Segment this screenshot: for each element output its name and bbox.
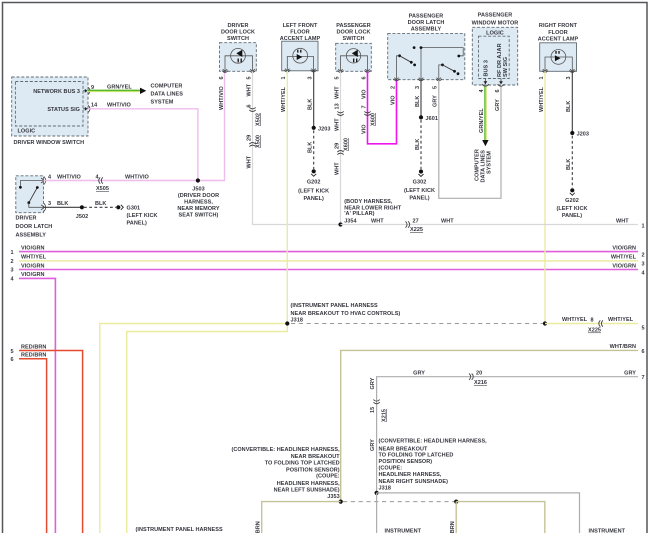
wire BLK dashed J601 to G302 bbox=[415, 120, 421, 169]
node junction at right lamp wire bbox=[543, 321, 547, 325]
wire BLK lamp pin3 to J203 bbox=[566, 71, 572, 133]
svg-text:X505: X505 bbox=[96, 186, 109, 192]
svg-text:PANEL): PANEL) bbox=[409, 196, 429, 202]
svg-text:X225: X225 bbox=[588, 328, 601, 334]
label DRIVER DOOR LATCH ASSEMBLY bbox=[16, 216, 53, 239]
svg-text:2: 2 bbox=[641, 253, 644, 259]
svg-text:VIO: VIO bbox=[361, 89, 367, 99]
svg-text:HARNESS,: HARNESS, bbox=[184, 199, 213, 205]
node COMPUTER DATA LINES SYSTEM bbox=[151, 83, 184, 105]
svg-text:1: 1 bbox=[641, 224, 644, 230]
svg-text:J502: J502 bbox=[76, 214, 88, 220]
ground G202 left (LEFT KICK PANEL) bbox=[298, 169, 329, 202]
connector X602 pin 13 bbox=[334, 103, 343, 115]
svg-text:6: 6 bbox=[10, 357, 13, 363]
svg-text:GRY: GRY bbox=[370, 439, 376, 451]
wire BLK latch pin3 to J502 bbox=[44, 201, 82, 207]
svg-text:WHT: WHT bbox=[246, 83, 252, 96]
svg-text:6: 6 bbox=[641, 349, 644, 355]
svg-text:WHT/YEL: WHT/YEL bbox=[539, 86, 545, 112]
svg-text:RIGHT FRONT: RIGHT FRONT bbox=[539, 23, 578, 29]
svg-text:WHT/YEL: WHT/YEL bbox=[608, 317, 634, 323]
lamp E2 RIGHT FRONT FLOOR ACCENT LAMP bbox=[538, 23, 579, 72]
svg-text:SEAT SWITCH): SEAT SWITCH) bbox=[179, 212, 219, 218]
svg-text:VIO/GRN: VIO/GRN bbox=[612, 263, 636, 269]
svg-text:SYSTEM: SYSTEM bbox=[151, 99, 174, 105]
wire WHT/YEL branch B to J318 hvac breakout bbox=[127, 324, 288, 533]
svg-text:G301: G301 bbox=[127, 205, 141, 211]
svg-text:GRY: GRY bbox=[370, 377, 376, 389]
svg-text:COMPUTER: COMPUTER bbox=[151, 83, 183, 89]
node J318 instrument panel harness breakout bbox=[285, 303, 400, 326]
svg-text:7: 7 bbox=[361, 105, 367, 108]
svg-text:ACCENT LAMP: ACCENT LAMP bbox=[538, 36, 579, 42]
svg-text:WHT/YEL: WHT/YEL bbox=[21, 255, 47, 261]
svg-text:GRY: GRY bbox=[413, 371, 425, 377]
svg-text:WHT: WHT bbox=[334, 162, 340, 175]
wire GRY right edge to J318 headliner bbox=[370, 371, 638, 493]
svg-text:PASSENGER: PASSENGER bbox=[336, 23, 371, 29]
svg-text:(COUPE:: (COUPE: bbox=[316, 474, 340, 480]
svg-text:6: 6 bbox=[495, 89, 501, 92]
svg-text:1: 1 bbox=[281, 76, 287, 79]
svg-text:G302: G302 bbox=[413, 179, 427, 185]
connector X215 pin 15 bbox=[373, 400, 387, 422]
svg-text:6: 6 bbox=[361, 76, 367, 79]
svg-text:VIO/GRN: VIO/GRN bbox=[21, 263, 45, 269]
connector X216 pin 20 bbox=[469, 371, 487, 387]
svg-text:BLK: BLK bbox=[57, 201, 68, 207]
svg-text:BLK: BLK bbox=[95, 201, 106, 207]
node J203 right bbox=[570, 131, 589, 138]
svg-text:WHT/YEL: WHT/YEL bbox=[611, 255, 637, 261]
svg-text:(CONVERTIBLE: HEADLINER HARNES: (CONVERTIBLE: HEADLINER HARNESS, bbox=[379, 439, 488, 445]
svg-text:NEAR MEMORY: NEAR MEMORY bbox=[177, 206, 219, 212]
svg-text:5: 5 bbox=[641, 326, 644, 332]
wire VIO/GRN bus line 1 bbox=[19, 245, 638, 251]
svg-text:BLK: BLK bbox=[566, 101, 572, 112]
svg-text:4: 4 bbox=[10, 277, 14, 283]
svg-text:WHT: WHT bbox=[246, 155, 252, 168]
svg-text:WHT: WHT bbox=[334, 86, 340, 99]
switch S4 PASSENGER DOOR LATCH ASSEMBLY bbox=[388, 14, 465, 81]
svg-text:TO FOLDING TOP LATCHED: TO FOLDING TOP LATCHED bbox=[265, 461, 340, 467]
svg-text:DOOR LATCH: DOOR LATCH bbox=[408, 20, 445, 26]
node junction right of J353 bbox=[454, 500, 458, 504]
node J353 headliner harness left bbox=[231, 447, 342, 504]
svg-text:FLOOR: FLOOR bbox=[290, 30, 310, 36]
svg-text:(LEFT KICK: (LEFT KICK bbox=[127, 213, 158, 219]
svg-text:LOGIC: LOGIC bbox=[18, 129, 36, 135]
svg-text:X225: X225 bbox=[410, 227, 423, 233]
svg-text:WHT: WHT bbox=[616, 219, 629, 225]
svg-text:1: 1 bbox=[539, 76, 545, 79]
svg-text:WINDOW MOTOR: WINDOW MOTOR bbox=[472, 21, 519, 27]
svg-text:PANEL): PANEL) bbox=[562, 213, 582, 219]
svg-text:PASSENGER: PASSENGER bbox=[409, 14, 444, 20]
svg-text:J203: J203 bbox=[577, 132, 589, 138]
svg-text:WHT: WHT bbox=[371, 219, 384, 225]
svg-text:VIO/GRN: VIO/GRN bbox=[21, 245, 45, 251]
node J601 bbox=[419, 115, 438, 122]
node J503 junction bbox=[177, 178, 219, 218]
svg-text:LOGIC: LOGIC bbox=[486, 31, 504, 37]
wire GRN/YEL to computer data lines bbox=[479, 87, 488, 147]
node COMPUTER DATA LINES SYSTEM rotated bbox=[475, 149, 493, 182]
svg-text:X600: X600 bbox=[370, 113, 376, 126]
svg-text:WHT/VIO: WHT/VIO bbox=[57, 174, 82, 180]
svg-text:WHT/VIO: WHT/VIO bbox=[219, 85, 225, 110]
svg-text:ASSEMBLY: ASSEMBLY bbox=[411, 27, 442, 33]
svg-text:DOOR LOCK: DOOR LOCK bbox=[336, 30, 370, 36]
svg-text:SWITCH: SWITCH bbox=[343, 36, 365, 42]
svg-text:3: 3 bbox=[566, 76, 572, 79]
connector X600 pin 7 bbox=[361, 105, 376, 126]
connector X500 pin 29 bbox=[246, 135, 261, 148]
svg-text:2: 2 bbox=[10, 259, 13, 265]
ground G202 right (LEFT KICK PANEL) bbox=[556, 188, 587, 219]
svg-text:5: 5 bbox=[10, 349, 13, 355]
wire WHT/BRN right edge to J353 bbox=[341, 344, 638, 501]
svg-text:5: 5 bbox=[334, 76, 340, 79]
wire GRY latch pin5 to window motor pin6 bbox=[433, 80, 501, 199]
svg-text:GRY: GRY bbox=[495, 99, 501, 111]
svg-text:X502: X502 bbox=[255, 113, 261, 126]
svg-text:3: 3 bbox=[307, 76, 313, 79]
wire RED/BRN line 5 bbox=[19, 344, 83, 533]
svg-text:WHT/VIO: WHT/VIO bbox=[107, 102, 132, 108]
svg-text:3: 3 bbox=[48, 201, 51, 207]
svg-text:PASSENGER: PASSENGER bbox=[478, 13, 513, 19]
switch S2 DRIVER DOOR LOCK SWITCH bbox=[220, 23, 257, 72]
switch U2 DRIVER WINDOW SWITCH bbox=[12, 77, 90, 136]
svg-text:BLK: BLK bbox=[415, 139, 421, 150]
wire WHT/VIO latch pin4 to J503 and up to door lock switch pin 6 bbox=[44, 71, 225, 180]
ground G302 (LEFT KICK PANEL) bbox=[404, 169, 435, 201]
wire WHT/YEL branch A to J318 hvac breakout bbox=[100, 324, 287, 533]
svg-text:DOOR LOCK: DOOR LOCK bbox=[221, 30, 255, 36]
connector X600 pin 29 bbox=[334, 138, 349, 155]
svg-text:POSITION SENSOR): POSITION SENSOR) bbox=[286, 467, 340, 473]
svg-text:WHT/YEL: WHT/YEL bbox=[562, 317, 588, 323]
svg-text:NEAR RIGHT SUNSHADE): NEAR RIGHT SUNSHADE) bbox=[379, 479, 449, 485]
svg-text:DATA LINES: DATA LINES bbox=[151, 91, 184, 97]
svg-text:6: 6 bbox=[219, 76, 225, 79]
svg-text:BLK: BLK bbox=[308, 99, 314, 110]
svg-text:VIO: VIO bbox=[390, 95, 396, 105]
svg-text:WHT/VIO: WHT/VIO bbox=[125, 174, 150, 180]
svg-text:WHT: WHT bbox=[441, 219, 454, 225]
svg-text:13: 13 bbox=[334, 103, 340, 109]
svg-text:6: 6 bbox=[246, 104, 252, 107]
svg-text:VIO/GRN: VIO/GRN bbox=[21, 272, 45, 278]
svg-text:DRIVER WINDOW SWITCH: DRIVER WINDOW SWITCH bbox=[14, 140, 85, 146]
svg-text:3: 3 bbox=[10, 267, 13, 273]
svg-text:WHT/BRN: WHT/BRN bbox=[450, 521, 456, 533]
svg-text:NEAR BREAKOUT: NEAR BREAKOUT bbox=[379, 446, 429, 452]
svg-text:(CONVERTIBLE: HEADLINER HARNES: (CONVERTIBLE: HEADLINER HARNESS, bbox=[231, 447, 340, 453]
wire BLK dashed J502 to G301 bbox=[84, 201, 116, 207]
svg-text:(BODY HARNESS,: (BODY HARNESS, bbox=[344, 199, 393, 205]
wire WHT/YEL lamp pin1 down to J318 bbox=[281, 71, 287, 324]
svg-text:ASSEMBLY: ASSEMBLY bbox=[16, 233, 47, 239]
svg-text:GRY: GRY bbox=[433, 95, 439, 107]
svg-text:HEADLINER HARNESS,: HEADLINER HARNESS, bbox=[379, 472, 442, 478]
switch S3 PASSENGER DOOR LOCK SWITCH bbox=[336, 23, 372, 72]
connector X502 pin 6 bbox=[246, 104, 261, 126]
node J354 body harness junction bbox=[338, 199, 401, 227]
svg-text:INSTRUMENT: INSTRUMENT bbox=[385, 529, 422, 533]
svg-text:5: 5 bbox=[433, 86, 439, 89]
svg-text:X215: X215 bbox=[381, 409, 387, 422]
connector X225 pin 8 bbox=[588, 320, 603, 333]
svg-text:(INSTRUMENT PANEL HARNESS: (INSTRUMENT PANEL HARNESS bbox=[136, 527, 223, 533]
wire RED/BRN line 6 bbox=[19, 353, 47, 533]
wire GRY J318 down branch bbox=[376, 493, 378, 533]
wire VIO lock switch pin6 to latch pin2 bbox=[361, 71, 396, 144]
wire BLK latch pin3 to J601 bbox=[415, 80, 421, 118]
svg-text:LEFT FRONT: LEFT FRONT bbox=[283, 23, 318, 29]
svg-text:29: 29 bbox=[334, 143, 340, 149]
svg-text:NEAR BREAKOUT: NEAR BREAKOUT bbox=[291, 454, 341, 460]
svg-text:WHT: WHT bbox=[334, 118, 340, 131]
wire VIO/GRN bus line 4 turning down bbox=[19, 272, 55, 533]
svg-text:(INSTRUMENT PANEL HARNESS: (INSTRUMENT PANEL HARNESS bbox=[291, 303, 378, 309]
svg-text:15: 15 bbox=[370, 407, 376, 413]
wire GRY J318 right branch down bbox=[377, 493, 580, 533]
svg-text:VIO/GRN: VIO/GRN bbox=[612, 245, 636, 251]
svg-text:DRIVER: DRIVER bbox=[227, 23, 248, 29]
svg-text:8: 8 bbox=[591, 318, 594, 324]
svg-text:J354: J354 bbox=[344, 219, 357, 225]
svg-text:J318: J318 bbox=[379, 486, 391, 492]
svg-text:SW SIG: SW SIG bbox=[503, 57, 509, 77]
svg-text:(LEFT KICK: (LEFT KICK bbox=[556, 206, 587, 212]
svg-text:G202: G202 bbox=[307, 180, 321, 186]
svg-text:DRIVER: DRIVER bbox=[16, 216, 37, 222]
wire VIO/GRN bus line 3 bbox=[19, 263, 638, 269]
svg-text:X216: X216 bbox=[474, 380, 487, 386]
svg-text:RED/BRN: RED/BRN bbox=[21, 344, 46, 350]
node J203 left bbox=[312, 126, 331, 133]
svg-text:GRN/YEL: GRN/YEL bbox=[479, 108, 485, 133]
svg-text:BLK: BLK bbox=[415, 96, 421, 107]
svg-text:VIO: VIO bbox=[361, 124, 367, 134]
svg-text:POSITION SENSOR): POSITION SENSOR) bbox=[379, 459, 433, 465]
svg-text:4: 4 bbox=[48, 174, 52, 180]
svg-text:BLK: BLK bbox=[308, 142, 314, 153]
svg-text:(COUPE:: (COUPE: bbox=[379, 465, 403, 471]
svg-text:5: 5 bbox=[246, 76, 252, 79]
svg-text:GRN/YEL: GRN/YEL bbox=[107, 84, 132, 90]
svg-text:STATUS SIG: STATUS SIG bbox=[47, 107, 80, 113]
wire BLK dashed J203 to G202 bbox=[566, 136, 572, 188]
svg-text:3: 3 bbox=[415, 86, 421, 89]
svg-text:WHT/BRN: WHT/BRN bbox=[610, 344, 636, 350]
wire WHT/VIO status sig bbox=[88, 102, 198, 180]
svg-text:BLK: BLK bbox=[566, 159, 572, 170]
svg-text:(LEFT KICK: (LEFT KICK bbox=[404, 188, 435, 194]
svg-text:RED/BRN: RED/BRN bbox=[21, 353, 46, 359]
wire WHT/YEL lamp pin1 down to X225 junction bbox=[539, 71, 545, 323]
svg-text:29: 29 bbox=[246, 135, 252, 141]
svg-text:J318: J318 bbox=[291, 318, 303, 324]
svg-text:4: 4 bbox=[641, 271, 645, 277]
svg-text:7: 7 bbox=[641, 375, 644, 381]
node J318 headliner harness right bbox=[375, 439, 488, 496]
svg-text:14: 14 bbox=[91, 103, 98, 109]
wire WHT/YEL bus line 2 bbox=[19, 255, 638, 261]
wire WHT driver door lock switch pin5 down and right to J354 bbox=[246, 71, 340, 224]
svg-text:GRY: GRY bbox=[624, 371, 636, 377]
connector X225 pin 27 bbox=[406, 219, 424, 234]
svg-text:SWITCH: SWITCH bbox=[227, 36, 249, 42]
switch S1 DRIVER DOOR LATCH ASSEMBLY bbox=[16, 176, 46, 213]
svg-text:NETWORK BUS 3: NETWORK BUS 3 bbox=[33, 89, 80, 95]
wire WHT/BRN junction down bbox=[450, 502, 456, 533]
svg-text:J203: J203 bbox=[318, 126, 330, 132]
svg-text:(DRIVER DOOR: (DRIVER DOOR bbox=[178, 193, 219, 199]
svg-text:J353: J353 bbox=[327, 494, 339, 500]
svg-text:G202: G202 bbox=[565, 198, 579, 204]
svg-text:27: 27 bbox=[413, 219, 419, 225]
svg-text:BUS 3: BUS 3 bbox=[483, 60, 489, 76]
wire BLK lamp pin3 to J203 bbox=[308, 71, 314, 128]
lamp E1 LEFT FRONT FLOOR ACCENT LAMP bbox=[280, 23, 321, 72]
svg-text:FLOOR: FLOOR bbox=[548, 30, 568, 36]
svg-text:PANEL): PANEL) bbox=[304, 196, 324, 202]
svg-text:J601: J601 bbox=[426, 116, 438, 122]
svg-text:20: 20 bbox=[476, 371, 482, 377]
ground G301 (LEFT KICK PANEL) bbox=[116, 205, 157, 227]
motor U3 PASSENGER WINDOW MOTOR bbox=[472, 13, 519, 87]
wire BLK dashed J203 to G202 bbox=[308, 131, 314, 170]
svg-text:WHT/BRN: WHT/BRN bbox=[256, 521, 262, 533]
svg-text:'A' PILLAR): 'A' PILLAR) bbox=[344, 211, 374, 217]
svg-text:NEAR LEFT SUNSHADE): NEAR LEFT SUNSHADE) bbox=[274, 487, 340, 493]
connector X505 pin 4 bbox=[96, 174, 110, 192]
svg-text:WHT/YEL: WHT/YEL bbox=[281, 86, 287, 112]
svg-text:J503: J503 bbox=[192, 186, 204, 192]
svg-text:INSTRUMENT: INSTRUMENT bbox=[589, 529, 626, 533]
node J502 bbox=[76, 205, 88, 220]
wire WHT/BRN J353 left branch down bbox=[256, 502, 341, 533]
svg-text:X500: X500 bbox=[255, 135, 261, 148]
svg-text:(LEFT KICK: (LEFT KICK bbox=[298, 188, 329, 194]
wire dashed J318 to X225 junction bbox=[291, 323, 543, 325]
svg-text:NEAR BREAKOUT TO HVAC CONTROLS: NEAR BREAKOUT TO HVAC CONTROLS) bbox=[291, 311, 401, 317]
svg-text:DOOR LATCH: DOOR LATCH bbox=[16, 224, 53, 230]
svg-text:TO FOLDING TOP LATCHED: TO FOLDING TOP LATCHED bbox=[379, 453, 454, 459]
svg-text:1: 1 bbox=[10, 250, 13, 256]
wire WHT passenger door lock switch pin5 down to J354 bbox=[334, 71, 340, 224]
wire GRN/YEL network bus bbox=[88, 84, 146, 94]
svg-text:HEADLINER HARNESS,: HEADLINER HARNESS, bbox=[277, 481, 340, 487]
svg-text:2: 2 bbox=[390, 86, 396, 89]
svg-text:PANEL): PANEL) bbox=[127, 221, 147, 227]
svg-text:X600: X600 bbox=[343, 138, 349, 151]
wire WHT/YEL junction to right edge bbox=[545, 317, 638, 324]
wire WHT/BRN junction right branch down bbox=[456, 502, 545, 533]
wire dashed J353 to junction right bbox=[343, 501, 454, 503]
svg-text:3: 3 bbox=[641, 262, 644, 268]
svg-text:SYSTEM: SYSTEM bbox=[487, 151, 493, 174]
wire WHT J354 to right edge bbox=[341, 219, 639, 225]
